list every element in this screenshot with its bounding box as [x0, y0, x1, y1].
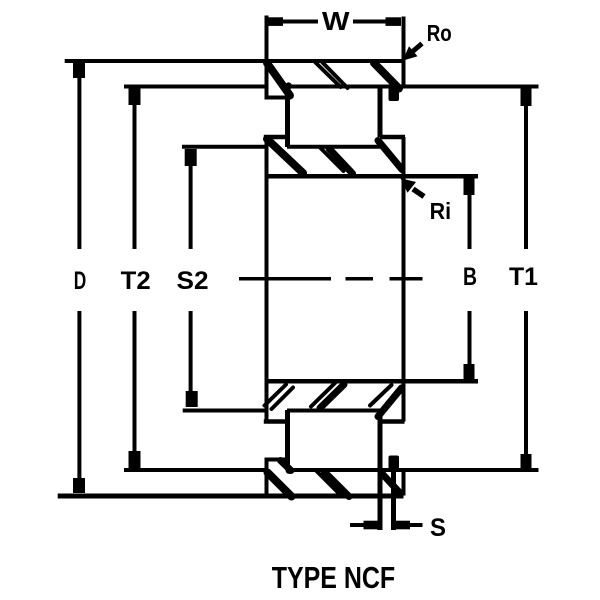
dimension S2	[185, 149, 198, 407]
dimension T2	[129, 88, 141, 468]
outer ring top hatching	[267, 63, 399, 96]
svg-text:T2: T2	[121, 267, 151, 295]
outer ring bottom hatching	[268, 461, 400, 497]
svg-text:Ri: Ri	[430, 198, 452, 224]
outer ring top section outline	[65, 16, 539, 100]
outer ring bottom section outline	[58, 458, 539, 498]
roller top	[288, 87, 381, 148]
inner ring right face	[402, 137, 406, 422]
svg-text:W: W	[322, 6, 350, 36]
svg-text:TYPE NCF: TYPE NCF	[272, 560, 396, 595]
outer ring top small right rib (solid)	[389, 84, 400, 101]
outer ring bottom small right rib (solid)	[389, 456, 400, 473]
inner ring bottom hatching	[265, 383, 402, 417]
inner ring top section outline	[182, 137, 478, 176]
svg-text:B: B	[463, 263, 477, 291]
leader Ri	[401, 178, 425, 196]
svg-text:S: S	[430, 514, 446, 542]
roller bottom	[288, 410, 381, 530]
S right extension line	[391, 470, 396, 530]
leader Ro	[403, 44, 423, 61]
inner ring left face	[265, 137, 269, 422]
inner ring top hatching	[267, 139, 402, 174]
dimension S	[350, 521, 423, 530]
svg-text:S2: S2	[177, 267, 209, 295]
dimension B	[464, 178, 475, 381]
svg-text:Ro: Ro	[427, 20, 452, 46]
inner ring bottom section outline	[183, 381, 478, 421]
svg-text:D: D	[74, 267, 87, 295]
svg-text:T1: T1	[509, 263, 538, 291]
dimension W	[267, 17, 401, 26]
dimension D	[73, 63, 85, 493]
centerline	[239, 277, 423, 281]
dimension T1	[521, 88, 532, 468]
